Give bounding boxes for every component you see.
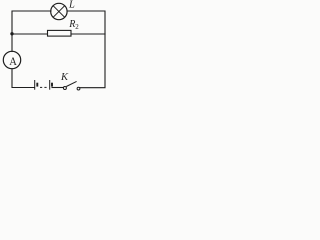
wire battery to switch [52,87,63,89]
svg-text:K: K [60,72,69,83]
wire left upper (junction to ammeter) [11,34,13,52]
battery cell 2 long plate [49,80,51,90]
resistor R2 [48,30,72,36]
node junction left [10,32,13,35]
lamp L [51,3,67,19]
wire top-left segment [12,11,51,34]
switch K blade [66,81,76,86]
ammeter A [3,51,20,68]
battery cell 2 short plate [51,83,53,87]
switch K right contact [77,87,80,90]
wire middle branch left [12,33,48,35]
svg-text:L: L [68,0,75,10]
wire left lower (ammeter to battery) [12,69,35,88]
battery dash 1 [40,86,42,88]
wire top-right segment [67,11,105,34]
battery cell 1 short plate [36,83,38,87]
switch K left contact [63,87,66,90]
wire right segment [80,34,105,88]
battery cell 1 long plate [34,80,36,90]
wire middle branch right [71,33,105,35]
battery dash 2 [44,86,46,88]
svg-text:A: A [9,55,17,68]
